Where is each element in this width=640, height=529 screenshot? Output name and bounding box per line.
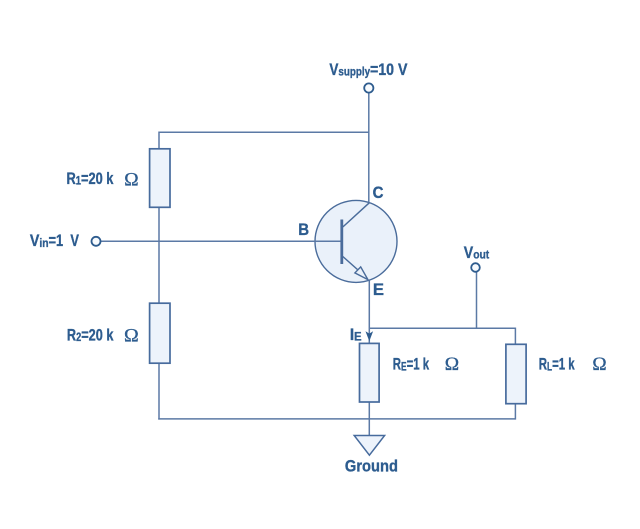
wire RL bottom to bus	[514, 404, 516, 420]
wire bottom bus	[158, 418, 515, 420]
svg-text:E: E	[373, 280, 384, 299]
svg-text:Ω: Ω	[592, 354, 606, 375]
wire Vout drop	[476, 272, 478, 329]
ground symbol	[354, 436, 384, 456]
wire RE bottom to ground	[368, 402, 370, 436]
wire base	[101, 240, 342, 242]
transistor Q1 base bar	[340, 220, 343, 265]
svg-text:Ground: Ground	[345, 458, 398, 476]
svg-text:Ω: Ω	[124, 170, 138, 191]
svg-text:B: B	[298, 221, 309, 239]
svg-text:C: C	[373, 184, 384, 202]
transistor Q1 collector diagonal	[343, 203, 370, 227]
wire emitter vertical	[368, 280, 370, 343]
wire emitter horizontal to RL	[369, 327, 515, 329]
transistor Q1 emitter arrowhead	[355, 267, 368, 280]
svg-text:Ω: Ω	[124, 326, 139, 347]
wire top horizontal	[159, 131, 369, 133]
svg-text:Vsupply: Vsupply	[329, 61, 371, 80]
transistor Q1 body	[315, 200, 397, 282]
svg-text:R2=20 k: R2=20 k	[67, 327, 114, 345]
wire to RL top	[514, 328, 516, 345]
transistor Q1 emitter diagonal	[343, 257, 358, 271]
wire Vsupply vertical to collector	[368, 93, 370, 203]
svg-text:RE=1 k: RE=1 k	[393, 356, 429, 375]
wire R2 to bottom bus	[158, 363, 160, 419]
wire left vertical down to R1	[158, 132, 160, 149]
wire R1 to R2	[158, 207, 160, 303]
svg-text:=1 V: =1 V	[49, 233, 80, 251]
svg-text:RL=1 k: RL=1 k	[539, 356, 575, 375]
resistor RL	[506, 344, 526, 403]
resistor R2	[150, 303, 170, 363]
current arrow IE	[366, 331, 374, 341]
svg-text:R1=20 k: R1=20 k	[67, 171, 115, 189]
resistor R1	[150, 149, 170, 208]
svg-text:Vin: Vin	[30, 232, 49, 250]
terminal Vsupply	[364, 83, 373, 92]
terminal Vout	[471, 263, 480, 272]
resistor RE	[360, 343, 380, 402]
svg-text:Ω: Ω	[445, 354, 459, 375]
svg-text:=10 V: =10 V	[370, 61, 408, 79]
svg-text:Vout: Vout	[464, 244, 490, 262]
terminal Vin	[92, 237, 101, 246]
svg-text:IE: IE	[350, 326, 362, 344]
